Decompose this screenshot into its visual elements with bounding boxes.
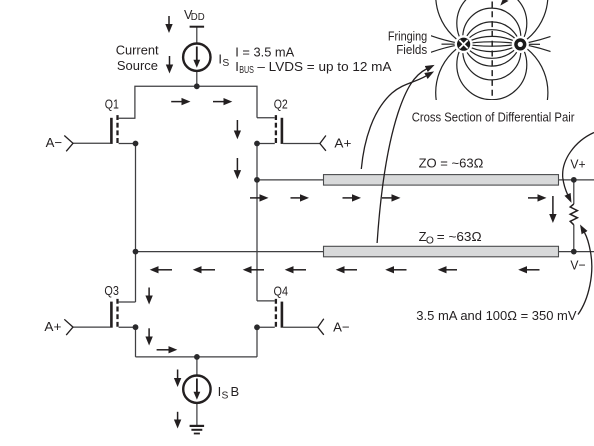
svg-text:BUS: BUS bbox=[239, 65, 254, 76]
svg-text:= ~63Ω: = ~63Ω bbox=[437, 229, 482, 244]
svg-text:O: O bbox=[426, 235, 434, 246]
svg-text:3.5 mA and 100Ω = 350 mV: 3.5 mA and 100Ω = 350 mV bbox=[416, 308, 577, 323]
svg-text:Q2: Q2 bbox=[274, 97, 288, 112]
svg-text:Q3: Q3 bbox=[104, 283, 119, 298]
svg-text:Source: Source bbox=[117, 58, 158, 73]
svg-text:ZO = ~63Ω: ZO = ~63Ω bbox=[419, 156, 484, 171]
svg-text:– LVDS = up to 12 mA: – LVDS = up to 12 mA bbox=[257, 59, 391, 74]
svg-text:A+: A+ bbox=[44, 319, 61, 334]
svg-text:Current: Current bbox=[116, 43, 159, 58]
svg-text:Cross Section of Differential: Cross Section of Differential Pair bbox=[412, 109, 575, 124]
svg-text:A+: A+ bbox=[334, 135, 351, 150]
svg-text:S: S bbox=[222, 391, 229, 402]
svg-text:V−: V− bbox=[570, 257, 585, 272]
svg-text:Q1: Q1 bbox=[105, 97, 119, 112]
svg-text:I = 3.5 mA: I = 3.5 mA bbox=[235, 45, 294, 60]
svg-text:S: S bbox=[222, 58, 229, 69]
svg-text:A−: A− bbox=[333, 320, 350, 335]
svg-text:Q4: Q4 bbox=[274, 283, 289, 298]
svg-text:DD: DD bbox=[191, 12, 205, 23]
svg-text:B: B bbox=[231, 384, 240, 399]
svg-text:A−: A− bbox=[46, 135, 63, 150]
svg-text:Fields: Fields bbox=[396, 42, 427, 57]
svg-text:V+: V+ bbox=[570, 157, 585, 172]
